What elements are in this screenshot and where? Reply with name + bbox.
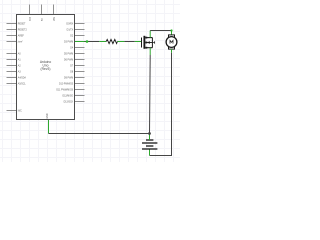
- Arduino U1 left pins: [7, 24, 17, 111]
- junction node dot: [148, 132, 151, 135]
- transistor Q1 MOSFET symbol: [142, 36, 155, 49]
- svg-text:A4/SDA: A4/SDA: [18, 76, 27, 79]
- svg-text:D3 PWM: D3 PWM: [64, 41, 73, 43]
- svg-text:5V: 5V: [42, 18, 44, 21]
- motor M1 top pin (green): [171, 31, 173, 36]
- svg-text:ioref: ioref: [18, 41, 23, 43]
- svg-text:D5 PWM: D5 PWM: [64, 53, 73, 55]
- transistor Q1 source lead (green, down): [149, 48, 151, 55]
- svg-text:D13/SCK: D13/SCK: [64, 101, 74, 103]
- svg-text:D9 PWM: D9 PWM: [64, 77, 73, 79]
- svg-text:D6 PWM: D6 PWM: [64, 59, 73, 61]
- svg-text:D0/RX: D0/RX: [66, 23, 73, 25]
- svg-text:GND: GND: [47, 113, 49, 118]
- svg-text:AREF: AREF: [18, 34, 25, 37]
- Arduino U1 right pin labels: [56, 23, 74, 103]
- Arduino U1 left pin labels: [18, 23, 28, 112]
- svg-text:N/C: N/C: [18, 110, 22, 112]
- resistor R1 zigzag: [106, 39, 117, 43]
- Arduino U1 right pins D0-D13: [75, 24, 85, 102]
- transistor Q1 gate lead (green): [135, 41, 141, 43]
- Arduino U1 pin D3 PWM (connected, green): [75, 41, 85, 43]
- svg-text:3V3: 3V3: [30, 16, 32, 21]
- wire Q1 source down to junction: [149, 55, 152, 134]
- transistor Q1 drain lead (green, up): [149, 31, 151, 38]
- svg-text:D1/TX: D1/TX: [67, 29, 74, 31]
- battery BT1 symbol: [142, 140, 157, 149]
- Arduino U1 bottom GND pin label (rotated): [47, 113, 49, 118]
- svg-text:RESET: RESET: [18, 23, 26, 25]
- svg-text:A5/SCL: A5/SCL: [18, 82, 27, 85]
- Arduino U1 body: [17, 15, 75, 120]
- motor M1 bottom pin (green): [171, 49, 173, 53]
- Arduino U1 title text: [40, 60, 52, 71]
- Arduino U1 bottom GND pin (connected, green): [48, 120, 50, 134]
- svg-text:RESET2: RESET2: [18, 29, 28, 31]
- wire Arduino GND to junction: [49, 133, 150, 135]
- Arduino U1 top pins 3V3 5V VIN: [30, 5, 54, 15]
- svg-text:D10 PWM/SS: D10 PWM/SS: [59, 83, 74, 85]
- background grid: [0, 0, 180, 162]
- resistor R1 legs (green): [99, 41, 124, 43]
- svg-text:D12/MISO: D12/MISO: [62, 95, 73, 97]
- wire motor bottom to battery minus: [150, 53, 172, 156]
- svg-text:VIN: VIN: [54, 17, 56, 21]
- Arduino U1 top pin labels (rotated): [30, 16, 56, 21]
- svg-text:(Rev3): (Rev3): [41, 67, 51, 71]
- battery BT1 bottom pin (green): [149, 149, 151, 155]
- wire drain to motor top: [150, 29, 172, 31]
- motor M1 symbol: [166, 35, 177, 49]
- wire D3 pin to resistor: [85, 40, 100, 43]
- wire resistor to Q1 gate: [124, 41, 134, 43]
- svg-text:D11 PWM/MOSI: D11 PWM/MOSI: [56, 89, 73, 91]
- battery BT1 top pin (green): [149, 134, 151, 141]
